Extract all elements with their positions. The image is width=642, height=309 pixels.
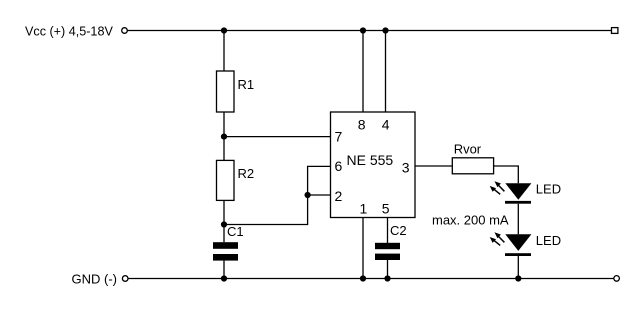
svg-text:R2: R2 — [238, 166, 255, 181]
svg-text:5: 5 — [382, 201, 390, 217]
svg-text:6: 6 — [335, 158, 343, 174]
wire R2 to node C1 — [223, 200, 225, 224]
capacitor C2 — [375, 243, 400, 260]
wire pin1 — [362, 218, 364, 279]
wire pin6 — [308, 166, 331, 195]
junction C2-gnd — [384, 275, 390, 281]
wire pin4 — [385, 31, 387, 113]
wire Vcc rail — [128, 30, 612, 32]
svg-text:2: 2 — [335, 188, 343, 204]
svg-text:8: 8 — [358, 117, 366, 133]
terminal GND left — [122, 276, 128, 282]
junction rail-pin8 — [360, 27, 366, 33]
LED D1 light arrows — [490, 181, 505, 194]
svg-text:7: 7 — [335, 129, 343, 145]
wire Rvor to LED D1 — [494, 166, 519, 183]
wire C2 to GND — [387, 260, 389, 279]
terminal Vcc left — [122, 28, 128, 34]
svg-text:GND (-): GND (-) — [72, 272, 118, 287]
junction LED-gnd — [515, 275, 521, 281]
svg-text:NE 555: NE 555 — [347, 152, 394, 168]
resistor R2 — [217, 160, 235, 200]
wire C1 to GND — [223, 261, 225, 279]
junction node C1 — [221, 221, 227, 227]
wire pin8 — [362, 31, 364, 113]
resistor Rvor — [452, 158, 493, 174]
svg-text:LED: LED — [536, 233, 561, 248]
IC U1 NE555 — [331, 112, 416, 218]
wire node to C1 — [223, 225, 225, 243]
LED D2 light arrows — [490, 232, 505, 245]
terminal Vcc right — [612, 28, 618, 34]
capacitor C1 — [213, 242, 238, 260]
svg-text:R1: R1 — [238, 77, 255, 92]
wire pin5 to C2 — [387, 218, 389, 244]
wire D2 to GND — [517, 256, 519, 279]
svg-text:LED: LED — [536, 182, 561, 197]
svg-text:C2: C2 — [390, 223, 407, 238]
junction pin1-gnd — [360, 275, 366, 281]
wire D1 to D2 — [517, 204, 519, 235]
junction C1-gnd — [221, 275, 227, 281]
wire pin3 — [415, 165, 452, 167]
svg-text:3: 3 — [402, 159, 410, 175]
wire pin2 — [308, 194, 331, 196]
LED D1 — [505, 183, 531, 204]
svg-text:Vcc (+) 4,5-18V: Vcc (+) 4,5-18V — [25, 24, 113, 38]
wire R1 to node7 — [223, 112, 225, 137]
wire Vcc to R1 — [223, 31, 225, 72]
svg-text:C1: C1 — [227, 224, 244, 239]
resistor R1 — [217, 71, 235, 112]
wire node7 to R2 — [223, 137, 225, 161]
terminal GND right — [614, 276, 620, 282]
svg-text:4: 4 — [382, 117, 390, 133]
svg-text:Rvor: Rvor — [454, 142, 482, 157]
svg-text:1: 1 — [360, 201, 368, 217]
wire pin7 — [224, 136, 331, 138]
LED D2 — [505, 234, 531, 256]
junction rail-R1 — [221, 27, 227, 33]
junction rail-pin4 — [382, 27, 388, 33]
junction node7 — [221, 134, 227, 140]
junction pin2 node — [305, 192, 311, 198]
svg-text:max. 200 mA: max. 200 mA — [432, 213, 509, 228]
wire threshold link — [224, 195, 308, 225]
wire GND rail — [128, 278, 613, 280]
